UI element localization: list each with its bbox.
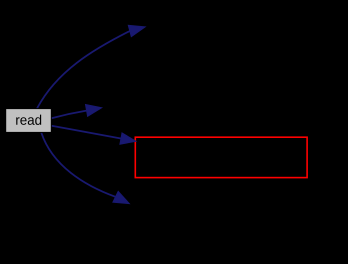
edge read->node4 (curved arrow bottom) — [41, 133, 129, 204]
edge read->node2 (short arrow) — [52, 105, 102, 119]
node highlighted (red box) — [135, 137, 307, 177]
edge read->node1 (curved arrow top) — [37, 25, 145, 108]
edge read->node3 (arrow into red box) — [52, 126, 137, 145]
node read (current function, gray box) — [6, 109, 52, 133]
